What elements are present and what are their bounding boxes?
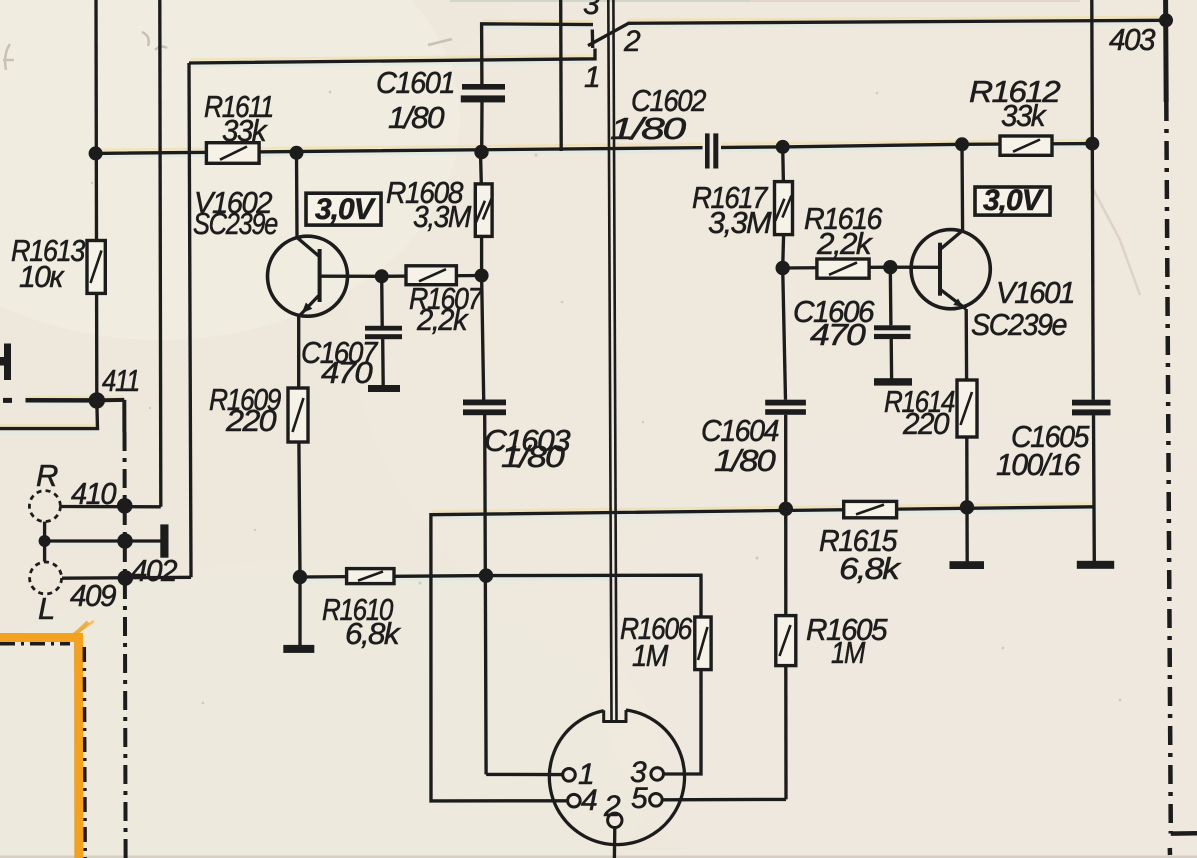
svg-text:3,3M: 3,3M <box>708 205 772 240</box>
svg-text:409: 409 <box>70 578 116 613</box>
svg-text:V1601: V1601 <box>996 275 1074 310</box>
svg-text:1/80: 1/80 <box>610 111 686 146</box>
svg-text:1M: 1M <box>831 635 865 670</box>
svg-text:410: 410 <box>71 476 116 511</box>
svg-text:33k: 33k <box>1001 98 1047 133</box>
svg-text:470: 470 <box>810 317 866 352</box>
svg-text:1/80: 1/80 <box>501 439 565 474</box>
svg-text:220: 220 <box>225 403 276 438</box>
svg-text:10к: 10к <box>19 259 65 294</box>
svg-text:L: L <box>38 591 54 626</box>
svg-text:402: 402 <box>131 553 177 588</box>
svg-text:2: 2 <box>623 25 641 58</box>
svg-text:100/16: 100/16 <box>996 447 1081 482</box>
svg-text:411: 411 <box>102 363 139 398</box>
svg-text:1M: 1M <box>632 638 669 673</box>
svg-text:R: R <box>36 458 58 493</box>
svg-text:6,8k: 6,8k <box>839 551 901 586</box>
svg-text:403: 403 <box>1109 22 1155 57</box>
svg-text:5: 5 <box>631 782 648 815</box>
svg-text:3,0V: 3,0V <box>315 193 377 226</box>
svg-text:1/80: 1/80 <box>714 443 776 478</box>
svg-text:33k: 33k <box>222 113 268 148</box>
svg-text:4: 4 <box>581 784 597 817</box>
svg-text:SC239e: SC239e <box>971 307 1067 342</box>
svg-text:3,0V: 3,0V <box>983 184 1045 217</box>
svg-text:2,2k: 2,2k <box>816 226 873 261</box>
svg-text:2: 2 <box>603 790 621 823</box>
svg-text:220: 220 <box>902 406 949 441</box>
svg-text:SC239e: SC239e <box>193 206 278 241</box>
svg-text:6,8k: 6,8k <box>345 616 401 651</box>
svg-text:470: 470 <box>321 355 372 390</box>
svg-text:3,3M: 3,3M <box>413 199 472 234</box>
svg-text:1/80: 1/80 <box>388 100 444 135</box>
svg-text:1: 1 <box>584 61 600 94</box>
svg-text:3: 3 <box>583 0 600 21</box>
svg-text:2,2k: 2,2k <box>416 302 469 337</box>
svg-text:C1601: C1601 <box>376 65 454 100</box>
